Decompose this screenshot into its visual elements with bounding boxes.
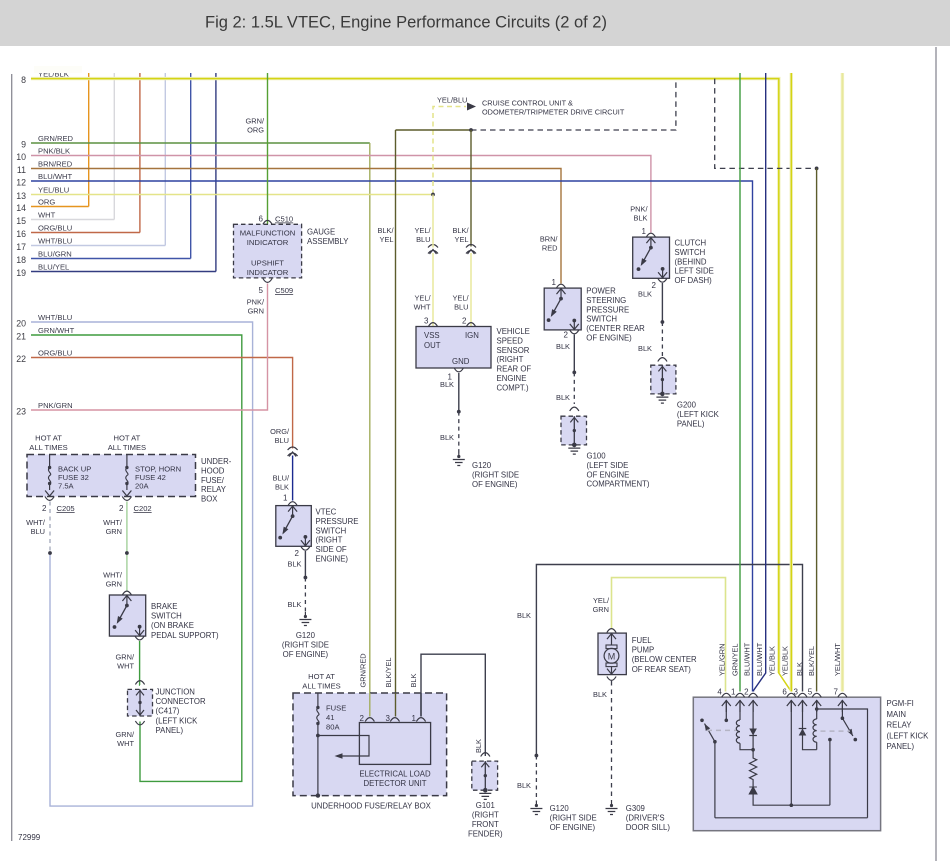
svg-text:CONNECTOR: CONNECTOR	[156, 697, 206, 706]
svg-text:OF ENGINE): OF ENGINE)	[586, 334, 632, 343]
relay diode D3 on pin 3	[803, 700, 817, 750]
svg-text:WHT/: WHT/	[103, 518, 123, 527]
fuse 42 output arc C202	[122, 497, 131, 501]
arrow to cruise control circuit	[467, 103, 476, 111]
svg-text:BRN/RED: BRN/RED	[38, 159, 73, 168]
svg-text:OF ENGINE): OF ENGINE)	[550, 823, 596, 832]
svg-text:GRN/: GRN/	[116, 730, 135, 739]
svg-text:IGN: IGN	[465, 331, 479, 340]
svg-text:GRN: GRN	[248, 307, 264, 316]
wire BLU/BLK to VTEC switch	[292, 456, 294, 501]
wire BLK/YEL vertical to ELD pin 3	[395, 130, 397, 717]
svg-text:ORG/BLU: ORG/BLU	[38, 348, 72, 357]
svg-text:1: 1	[412, 714, 417, 723]
VSS pin 3 arc	[428, 323, 437, 327]
svg-text:20: 20	[16, 319, 26, 329]
inline connector on YEL wire x471	[466, 245, 476, 248]
svg-text:7: 7	[833, 688, 838, 697]
svg-text:YEL: YEL	[455, 235, 469, 244]
relay bottom rail	[715, 817, 868, 819]
label ORG/BLU VTEC	[270, 427, 290, 445]
VSS pin 2 arc	[466, 323, 475, 327]
svg-text:FUEL: FUEL	[632, 636, 653, 645]
wire ORG/BLU vertical entry	[139, 73, 141, 233]
svg-text:2: 2	[744, 688, 749, 697]
label G120 VTEC	[296, 631, 316, 640]
label FUEL PUMP	[632, 636, 697, 674]
wire PNK/GRN row 23 to C509	[31, 284, 268, 411]
svg-text:BLU/WHT: BLU/WHT	[38, 172, 73, 181]
svg-text:G120: G120	[550, 804, 570, 813]
label G120 right side of engine	[472, 461, 519, 489]
svg-text:G120: G120	[296, 631, 316, 640]
svg-text:M: M	[608, 651, 616, 661]
relay pin 2 arc	[749, 693, 758, 697]
svg-text:YEL/BLK: YEL/BLK	[780, 646, 789, 676]
label BRN/RED	[540, 235, 559, 253]
svg-text:COMPARTMENT): COMPARTMENT)	[587, 480, 650, 489]
svg-text:PANEL): PANEL)	[156, 726, 184, 735]
wire WHT/GRN from fuse 42	[126, 502, 128, 591]
svg-text:1: 1	[731, 688, 736, 697]
svg-text:SWITCH: SWITCH	[586, 315, 617, 324]
svg-text:BLU/WHT: BLU/WHT	[755, 642, 764, 676]
brake switch contacts and blade	[126, 595, 128, 606]
svg-text:BRN/: BRN/	[540, 235, 559, 244]
svg-text:21: 21	[16, 332, 26, 342]
svg-text:(RIGHT SIDE: (RIGHT SIDE	[550, 813, 597, 822]
svg-text:BLK/YEL: BLK/YEL	[384, 658, 393, 688]
wire YEL/WHT halo	[841, 73, 844, 692]
label BLK PSP 2	[556, 393, 570, 402]
label VSS OUT	[424, 331, 441, 350]
svg-text:ORG: ORG	[247, 126, 264, 135]
svg-text:1: 1	[552, 278, 557, 287]
relay internal pin 5 lead	[816, 700, 818, 709]
label YEL/BLU above connector	[414, 226, 431, 244]
svg-text:(LEFT KICK: (LEFT KICK	[887, 731, 930, 740]
svg-text:6: 6	[782, 688, 787, 697]
svg-text:20A: 20A	[135, 482, 149, 491]
ELD current sensor loop with arrow	[318, 736, 369, 757]
label UNDER-HOOD FUSE/RELAY BOX	[201, 457, 232, 504]
svg-text:BLK: BLK	[275, 483, 289, 492]
label UPSHIFT INDICATOR	[247, 259, 289, 278]
svg-text:ORG/: ORG/	[270, 427, 290, 436]
svg-text:BLK: BLK	[440, 380, 454, 389]
svg-text:SWITCH: SWITCH	[316, 526, 347, 535]
svg-text:2: 2	[564, 331, 569, 340]
svg-text:BLU: BLU	[454, 303, 468, 312]
C417 connector arc bottom	[135, 721, 144, 725]
svg-text:BLU/: BLU/	[273, 474, 290, 483]
label STOP HORN FUSE 42 20A	[135, 465, 181, 491]
label BLK clutch 1	[638, 290, 652, 299]
svg-text:C510: C510	[275, 215, 293, 224]
svg-text:YEL/: YEL/	[593, 596, 610, 605]
svg-text:2: 2	[652, 281, 657, 290]
wire YEL/GRN to fuel pump	[612, 578, 726, 692]
VTEC pin 2 arc	[301, 546, 310, 550]
junction dot BLK/YEL node	[469, 128, 473, 132]
wire YEL/BLU dashed to cruise control	[433, 107, 466, 195]
svg-text:INDICATOR: INDICATOR	[247, 268, 289, 277]
svg-text:DOOR SILL): DOOR SILL)	[626, 823, 671, 832]
svg-text:(RIGHT SIDE: (RIGHT SIDE	[282, 641, 329, 650]
relay pin 1 arc	[735, 693, 744, 697]
ground G309	[610, 804, 613, 807]
svg-text:(RIGHT SIDE: (RIGHT SIDE	[472, 470, 519, 479]
G101 connector arc	[481, 753, 490, 757]
label PNK/BLK	[630, 205, 648, 223]
svg-text:OF REAR SEAT): OF REAR SEAT)	[632, 665, 692, 674]
svg-text:GND: GND	[452, 357, 470, 366]
svg-text:WHT: WHT	[414, 303, 431, 312]
clip artifact over YEL/BLK label	[34, 66, 82, 73]
svg-text:WHT/BLU: WHT/BLU	[38, 236, 72, 245]
wire WHT vertical entry	[113, 73, 115, 220]
wire BLK segment inside ELD box	[420, 693, 422, 717]
ground G120 bottom	[535, 804, 538, 807]
svg-text:VTEC: VTEC	[316, 508, 337, 517]
gauge assembly connector C509 arc	[263, 279, 272, 283]
svg-text:(BELOW CENTER: (BELOW CENTER	[632, 655, 697, 664]
label WHT/GRN under fuse	[103, 518, 123, 536]
svg-text:BLK: BLK	[409, 673, 418, 687]
wire BLU/GRN vertical entry	[190, 73, 192, 259]
label IGN	[465, 331, 479, 340]
wire BLK ELD pin 1 to G101	[421, 654, 485, 756]
svg-text:ORG/BLU: ORG/BLU	[38, 223, 72, 232]
svg-text:Fig 2: 1.5L VTEC, Engine Perfo: Fig 2: 1.5L VTEC, Engine Performance Cir…	[205, 14, 607, 32]
wire YEL/BLK 2 halo	[790, 73, 793, 692]
svg-text:CRUISE CONTROL UNIT &: CRUISE CONTROL UNIT &	[482, 99, 573, 108]
label PNK/GRN	[247, 298, 265, 316]
gauge assembly connector C510 arc	[263, 220, 272, 224]
svg-text:WHT/: WHT/	[103, 571, 123, 580]
svg-text:GRN/: GRN/	[116, 653, 135, 662]
underhood fuse/relay box (ELD)	[293, 693, 447, 796]
svg-text:BLK: BLK	[288, 600, 302, 609]
inline connector on VTEC wire	[288, 447, 298, 450]
relay coil 2	[816, 709, 818, 719]
svg-text:3: 3	[386, 714, 391, 723]
relay junction dot pin2/coil1	[751, 748, 755, 752]
svg-text:2: 2	[462, 317, 467, 326]
svg-text:OF DASH): OF DASH)	[675, 276, 713, 285]
svg-text:COMPT.): COMPT.)	[497, 383, 529, 392]
svg-text:BLK: BLK	[638, 290, 652, 299]
label G120 VTEC loc	[282, 641, 329, 659]
ELD pin 3 arc	[390, 718, 399, 722]
relay pin 3 arc	[798, 693, 807, 697]
junction dot BLK G120	[535, 754, 539, 758]
wire WHT row 15	[31, 219, 114, 221]
svg-text:BRAKE: BRAKE	[151, 602, 177, 611]
wire BLU/YEL row 19	[31, 271, 216, 273]
svg-text:GRN: GRN	[106, 580, 122, 589]
svg-text:ENGINE): ENGINE)	[316, 555, 349, 564]
wire YEL/BLU to VSS pin 2	[470, 253, 472, 327]
svg-text:WHT: WHT	[38, 210, 56, 219]
svg-text:STEERING: STEERING	[586, 296, 626, 305]
svg-text:G309: G309	[626, 804, 645, 813]
label FUSE 41 80A	[326, 704, 346, 732]
relay diode D2	[749, 787, 757, 794]
G100 connector arc	[570, 407, 579, 411]
label VEHICLE SPEED SENSOR	[497, 327, 532, 392]
svg-text:SIDE OF: SIDE OF	[316, 545, 347, 554]
wire BLU/YEL vertical entry	[215, 73, 217, 272]
svg-text:YEL/BLK: YEL/BLK	[768, 646, 777, 676]
svg-text:(DRIVER'S: (DRIVER'S	[626, 813, 665, 822]
svg-text:12: 12	[16, 178, 26, 188]
relay node pin5 to right rail	[817, 709, 868, 818]
label BLK VSS 1	[440, 380, 454, 389]
label YEL/GRN	[593, 596, 610, 614]
VTEC pressure switch S3	[276, 506, 312, 547]
label YEL/WHT pin 3	[414, 294, 432, 312]
wire BLK dashed to G100	[573, 372, 575, 404]
svg-text:YEL/BLU: YEL/BLU	[38, 185, 69, 194]
inline connector on YEL wire x433	[428, 245, 438, 248]
svg-text:72999: 72999	[18, 833, 41, 842]
svg-text:19: 19	[16, 268, 26, 278]
wire BLK dashed to G120 mid	[304, 578, 306, 613]
wire YEL/WHT below connector	[432, 253, 434, 327]
relay pin 5 arc	[812, 693, 821, 697]
label G100	[587, 452, 650, 489]
wire BLK from VTEC pin 2	[304, 551, 306, 578]
svg-text:BLK: BLK	[517, 611, 531, 620]
wire ORG/BLU row 16	[31, 232, 140, 234]
svg-text:7.5A: 7.5A	[58, 482, 75, 491]
left bus row numbers 8-23	[16, 75, 26, 416]
svg-text:10: 10	[16, 152, 26, 162]
title header bar	[0, 0, 950, 46]
junction dot BLK/YEL relay node	[815, 167, 819, 171]
svg-text:UNDERHOOD FUSE/RELAY BOX: UNDERHOOD FUSE/RELAY BOX	[311, 802, 432, 811]
wire BLK from clutch pin 2	[661, 283, 663, 322]
wire GRN/YEL to relay pin 1	[739, 73, 741, 692]
svg-text:VEHICLE: VEHICLE	[497, 327, 530, 336]
underhood fuse/relay box (fuses 32/42)	[27, 455, 196, 497]
wire ORG/BLU row 22 to VTEC switch	[31, 358, 293, 449]
svg-text:REAR OF: REAR OF	[497, 365, 532, 374]
svg-text:MAIN: MAIN	[887, 710, 907, 719]
brake switch pin arc bottom	[135, 636, 144, 640]
relay switch 2 pivot	[841, 700, 843, 718]
svg-text:WHT/: WHT/	[26, 518, 46, 527]
junction dot WHT/BLU	[48, 551, 52, 555]
wire BLU/GRN row 18	[31, 258, 191, 260]
wire YEL/BLK row 8 halo	[31, 79, 779, 673]
svg-text:(LEFT SIDE: (LEFT SIDE	[587, 461, 629, 470]
svg-text:G120: G120	[472, 461, 492, 470]
svg-text:18: 18	[16, 255, 26, 265]
svg-text:VSS: VSS	[424, 331, 440, 340]
svg-text:2: 2	[360, 714, 365, 723]
wire WHT/BLU vertical entry	[164, 73, 166, 246]
fuel pump connector arc	[607, 629, 616, 633]
svg-text:MALFUNCTION: MALFUNCTION	[240, 229, 296, 238]
svg-text:GRN: GRN	[106, 527, 122, 536]
svg-text:41: 41	[326, 713, 334, 722]
junction dot PSP BLK	[572, 371, 576, 375]
label BLK VTEC 2	[288, 600, 302, 609]
svg-text:OF ENGINE: OF ENGINE	[587, 470, 630, 479]
PSP pin 2 arc	[570, 330, 579, 334]
label GRN/WHT 2	[116, 730, 135, 748]
svg-text:PEDAL SUPPORT): PEDAL SUPPORT)	[151, 631, 219, 640]
svg-text:(BEHIND: (BEHIND	[675, 257, 707, 266]
svg-text:(LEFT KICK: (LEFT KICK	[156, 716, 199, 725]
wire BLK/YEL to PGM-FI relay pin 5	[816, 168, 818, 691]
label G101	[476, 801, 495, 810]
svg-text:BLK: BLK	[556, 342, 570, 351]
relay switch 1 to bottom rail	[714, 742, 716, 818]
svg-text:G100: G100	[587, 452, 607, 461]
svg-text:YEL/BLU: YEL/BLU	[437, 96, 467, 105]
clutch switch S2	[633, 237, 670, 278]
junction dot VSS BLK	[457, 410, 461, 414]
svg-text:2: 2	[42, 504, 47, 513]
relay switch 1 blade	[705, 724, 715, 742]
svg-text:GRN/RED: GRN/RED	[359, 653, 368, 687]
svg-text:BLK: BLK	[593, 690, 607, 699]
svg-text:5: 5	[808, 688, 813, 697]
svg-text:1: 1	[283, 494, 288, 503]
ground G120 under VSS	[457, 455, 460, 458]
junction connector G100	[561, 416, 587, 454]
label G200	[677, 401, 720, 429]
svg-text:ALL TIMES: ALL TIMES	[108, 443, 146, 452]
svg-text:GRN/YEL: GRN/YEL	[730, 644, 739, 676]
wire BLK/YEL from ignition horizontal	[396, 129, 472, 131]
junction connector C417	[128, 689, 153, 716]
label HOT AT ALL TIMES fuse42	[108, 434, 146, 452]
svg-text:BLK: BLK	[634, 214, 648, 223]
wire BLK from PSP pin 2	[573, 335, 575, 373]
svg-text:BLK: BLK	[288, 560, 302, 569]
svg-text:GRN/: GRN/	[246, 117, 265, 126]
wire GRN/RED row 9	[31, 142, 370, 144]
fuse 32 BACK UP element	[49, 455, 51, 491]
svg-text:(RIGHT: (RIGHT	[497, 355, 524, 364]
svg-text:6: 6	[259, 215, 264, 224]
wire BLK dashed fuel pump to G309	[611, 681, 613, 801]
svg-text:22: 22	[16, 354, 26, 364]
svg-text:RELAY: RELAY	[887, 721, 913, 730]
svg-text:GRN/RED: GRN/RED	[38, 134, 74, 143]
svg-text:5: 5	[259, 286, 264, 295]
svg-text:ODOMETER/TRIPMETER DRIVE CIRCU: ODOMETER/TRIPMETER DRIVE CIRCUIT	[482, 108, 625, 117]
svg-text:11: 11	[17, 165, 26, 175]
wire GRN/RED vertical to ELD pin 2	[369, 143, 371, 717]
wire BLU/WHT 2 to relay pin 2	[754, 73, 766, 692]
junction dot WHT/GRN	[125, 551, 129, 555]
svg-text:GRN/WHT: GRN/WHT	[38, 326, 75, 335]
wire YEL/WHT to VSS pin 3	[432, 195, 434, 248]
VSS pin 1 GND arc	[454, 368, 463, 372]
relay pin 7 arc	[838, 693, 847, 697]
svg-text:BLK: BLK	[517, 781, 531, 790]
svg-text:GAUGE: GAUGE	[307, 228, 335, 237]
relay mechanical link 1	[707, 729, 737, 731]
svg-text:G101: G101	[476, 801, 495, 810]
junction dot clutch BLK	[661, 320, 665, 324]
wire YEL/BLU row 13	[31, 194, 433, 196]
svg-text:PANEL): PANEL)	[677, 419, 705, 428]
svg-text:BLU: BLU	[31, 527, 45, 536]
svg-text:15: 15	[16, 216, 26, 226]
svg-text:YEL/: YEL/	[414, 294, 431, 303]
svg-text:UPSHIFT: UPSHIFT	[251, 259, 284, 268]
svg-text:SENSOR: SENSOR	[497, 346, 530, 355]
svg-text:PNK/BLK: PNK/BLK	[38, 146, 70, 155]
svg-text:2: 2	[295, 549, 300, 558]
svg-text:OF ENGINE): OF ENGINE)	[283, 650, 329, 659]
brake switch S4	[109, 595, 145, 636]
svg-text:PNK/: PNK/	[630, 205, 648, 214]
svg-text:BLK: BLK	[474, 739, 483, 753]
label ELECTRICAL LOAD DETECTOR UNIT	[359, 770, 431, 788]
svg-text:YEL: YEL	[380, 235, 394, 244]
svg-text:BLK/: BLK/	[452, 226, 469, 235]
svg-text:WHT: WHT	[117, 662, 134, 671]
VTEC switch blade and contacts	[292, 506, 294, 516]
wire BLK/YEL dashed cruise segment	[471, 79, 676, 130]
wire YEL/BLK 2 to relay pin 6	[790, 73, 792, 692]
junction connector G101	[472, 761, 498, 799]
label CRUISE CONTROL UNIT	[482, 99, 625, 117]
ELD unit inner box	[359, 723, 430, 765]
wire GRN/WHT brake to C417	[139, 641, 141, 685]
svg-text:SWITCH: SWITCH	[675, 248, 706, 257]
svg-text:16: 16	[16, 229, 26, 239]
svg-text:G200: G200	[677, 401, 697, 410]
svg-text:SPEED: SPEED	[497, 336, 524, 345]
svg-text:OF ENGINE): OF ENGINE)	[472, 480, 518, 489]
svg-text:PRESSURE: PRESSURE	[586, 305, 629, 314]
label WHT/BLU under fuse	[26, 518, 46, 536]
svg-text:FUSE/: FUSE/	[201, 476, 225, 485]
fuse 41 element	[317, 693, 319, 796]
svg-text:BOX: BOX	[201, 495, 218, 504]
svg-text:BLK/: BLK/	[377, 226, 394, 235]
wire YEL/BLK row 8	[31, 79, 791, 692]
wire dashed cruise segment 2	[715, 79, 815, 169]
label PGM-FI MAIN RELAY	[887, 699, 930, 751]
label GRN/ORG	[246, 117, 265, 135]
wire GRN/ORG to gauge C510	[267, 73, 269, 224]
svg-text:3: 3	[424, 317, 429, 326]
PSP switch contacts and blade	[560, 288, 562, 299]
relay resistor R1	[749, 750, 756, 787]
label G120 bottom	[550, 804, 597, 832]
wire WHT/BLU row 17	[31, 245, 165, 247]
svg-text:INDICATOR: INDICATOR	[247, 238, 289, 247]
label MALFUNCTION INDICATOR	[240, 229, 296, 248]
fuel pump bottom arc	[607, 677, 616, 681]
svg-text:FENDER): FENDER)	[468, 829, 503, 838]
relay mechanical link 2	[821, 730, 851, 732]
svg-text:PANEL): PANEL)	[887, 742, 915, 751]
brake switch pin arc top	[122, 591, 131, 595]
svg-text:4: 4	[717, 688, 722, 697]
svg-text:8: 8	[21, 75, 26, 85]
label BLK clutch 2	[638, 344, 652, 353]
